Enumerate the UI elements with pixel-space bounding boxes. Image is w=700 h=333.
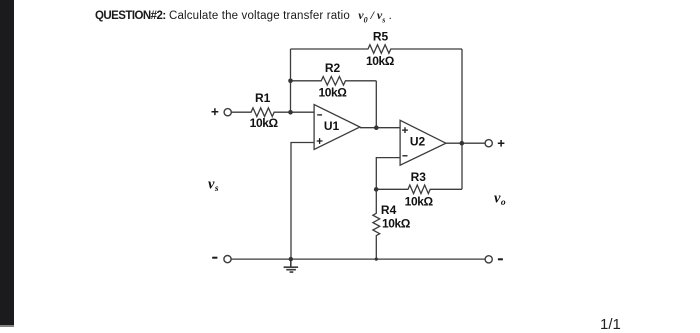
- svg-text:U2: U2: [410, 135, 426, 149]
- svg-text:10kΩ: 10kΩ: [318, 85, 347, 99]
- svg-text:vs: vs: [208, 176, 219, 194]
- svg-text:R2: R2: [325, 61, 341, 75]
- svg-text:vo: vo: [494, 190, 506, 208]
- svg-text:10kΩ: 10kΩ: [382, 217, 411, 231]
- svg-text:R5: R5: [373, 29, 389, 43]
- svg-text:R3: R3: [411, 170, 427, 184]
- svg-text:R1: R1: [255, 91, 271, 105]
- svg-text:10kΩ: 10kΩ: [250, 116, 279, 130]
- svg-text:U1: U1: [324, 119, 340, 133]
- svg-text:10kΩ: 10kΩ: [366, 54, 395, 68]
- svg-text:R4: R4: [381, 203, 397, 217]
- svg-text:10kΩ: 10kΩ: [405, 194, 434, 208]
